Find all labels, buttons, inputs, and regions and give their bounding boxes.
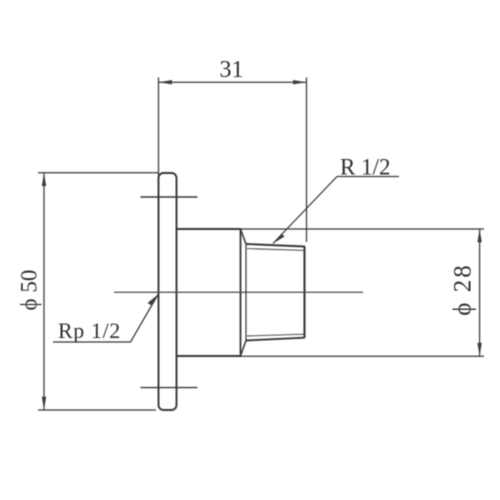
dim phi50 arrow bottom <box>42 397 46 410</box>
svg-text:ϕ 50: ϕ 50 <box>17 270 42 311</box>
dim phi28 extension bottom <box>241 355 485 357</box>
svg-text:R 1/2: R 1/2 <box>340 155 390 180</box>
thread root bottom <box>247 334 305 336</box>
dim phi28 arrow bottom <box>477 343 481 356</box>
dim phi28 dimension line <box>479 229 481 356</box>
leader Rp1/2 arrowhead <box>148 295 159 306</box>
thread crest top <box>246 244 305 247</box>
dim 31 extension line left <box>158 78 160 206</box>
thread root top <box>247 249 305 251</box>
dim phi50 extension bottom <box>38 409 156 411</box>
bolt hole tick top <box>141 196 198 198</box>
leader R1/2 line <box>273 177 399 244</box>
dim 31 dimension line <box>159 81 307 83</box>
dim phi28 extension top <box>241 228 485 230</box>
thread end face <box>303 246 305 338</box>
centerline <box>114 291 363 293</box>
leader Rp1/2 line <box>53 295 158 343</box>
dim phi28 arrow top <box>477 229 481 242</box>
svg-text:Rp 1/2: Rp 1/2 <box>58 318 121 343</box>
dim 31 arrow right <box>293 80 307 84</box>
thread start vertical <box>245 244 247 342</box>
bolt hole tick bottom <box>141 387 198 389</box>
dim 31 extension line right <box>306 78 308 243</box>
body bottom edge <box>177 355 241 357</box>
dim 31 arrow left <box>159 80 173 84</box>
dim phi50 extension top <box>38 172 158 174</box>
svg-text:ϕ 28: ϕ 28 <box>450 263 477 315</box>
body top edge <box>177 228 241 230</box>
chamfer top <box>241 229 247 244</box>
dim phi50 arrow top <box>42 173 46 186</box>
flange <box>159 173 177 410</box>
leader R1/2 arrowhead <box>273 234 285 244</box>
svg-text:31: 31 <box>220 57 244 83</box>
chamfer bottom <box>241 341 247 357</box>
thread crest bottom <box>246 338 305 341</box>
body right face <box>240 228 242 357</box>
dim phi50 dimension line <box>43 173 45 410</box>
